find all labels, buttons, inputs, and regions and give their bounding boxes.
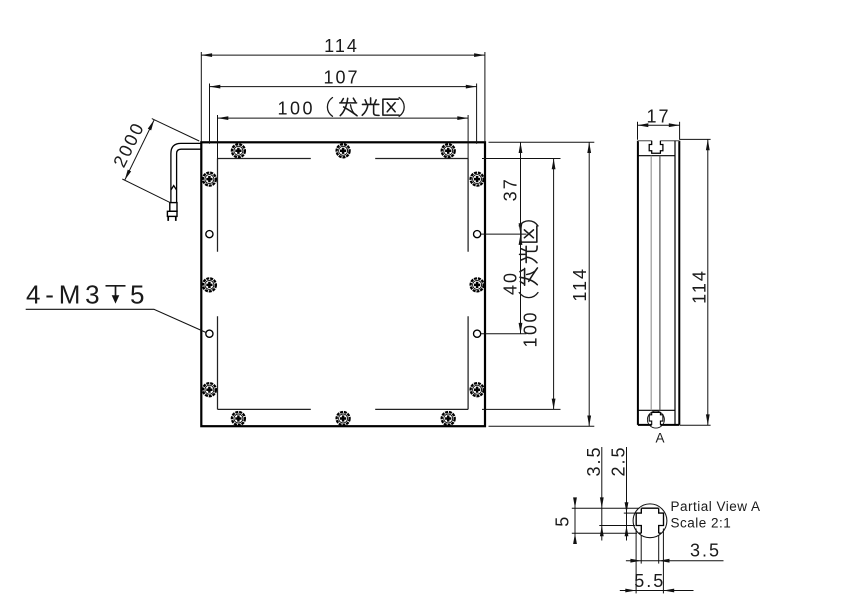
partial view slot profile right wall <box>659 508 664 533</box>
screw left-bottom <box>203 383 216 396</box>
svg-text:114: 114 <box>324 36 359 56</box>
partial view extension lines <box>572 508 664 593</box>
svg-text:114: 114 <box>570 267 590 302</box>
partial view slot profile left wall <box>636 508 641 533</box>
screw top-left <box>232 144 245 157</box>
svg-text:Partial View A: Partial View A <box>671 499 761 514</box>
svg-text:4-M3: 4-M3 <box>26 280 104 310</box>
screw right-middle <box>471 278 484 291</box>
side view inner line right <box>674 141 676 425</box>
M3 hole left lower <box>206 330 213 337</box>
shared extension line bottom (114) <box>489 425 595 427</box>
side view right edge <box>678 141 680 425</box>
screw bottom-left <box>232 412 245 425</box>
partial view boundary circle <box>633 504 667 538</box>
side view internal horizontal top <box>638 155 675 157</box>
M3 hole right lower <box>474 330 481 337</box>
svg-text:17: 17 <box>646 106 670 126</box>
svg-text:100: 100 <box>520 310 540 348</box>
side view top slot profile <box>649 141 663 154</box>
screw bottom-right <box>442 412 455 425</box>
dimension 17 side view <box>638 122 680 140</box>
partial view slot profile floor <box>641 507 658 509</box>
label leader line <box>26 309 207 332</box>
cable <box>171 143 201 202</box>
front view outer frame <box>201 142 485 426</box>
svg-text:40: 40 <box>500 271 520 295</box>
dimension 5.5 partial view bottom <box>620 590 694 592</box>
dimension 2.5 partial view <box>626 447 628 541</box>
dimension 100 (luminous area) right <box>553 159 555 410</box>
M3 hole left upper <box>206 231 213 238</box>
screw right-top <box>471 173 484 186</box>
svg-text:Scale 2:1: Scale 2:1 <box>671 515 732 530</box>
partial view bottom faces <box>639 532 662 534</box>
side view internal vertical line 2 <box>659 156 661 411</box>
detail circle A <box>647 411 664 428</box>
extension lines luminous area right <box>482 158 561 160</box>
svg-text:5.5: 5.5 <box>634 571 665 591</box>
dimension 107 top <box>210 84 477 144</box>
dimension 100 (luminous area) top <box>218 115 469 159</box>
dimension 40 right <box>520 234 522 334</box>
dimension 5 partial view <box>574 498 576 545</box>
svg-text:5: 5 <box>130 280 144 310</box>
svg-text:3.5: 3.5 <box>584 445 604 476</box>
screw left-middle <box>203 278 216 291</box>
screw left-top <box>203 173 216 186</box>
dimension 114 right <box>588 142 590 426</box>
dimension 3.5 partial view bottom <box>626 560 724 562</box>
dimension 114 side view <box>680 139 711 425</box>
side view left edge <box>637 141 639 425</box>
screw right-bottom <box>471 383 484 396</box>
front view inner bezel outline (with gaps at edge midpoints) <box>218 159 469 410</box>
screw top-right <box>442 144 455 157</box>
side view top face (slot gap) <box>638 140 679 142</box>
side view bottom slot profile <box>649 412 663 425</box>
screw bottom-center <box>337 412 350 425</box>
screw top-center <box>337 144 350 157</box>
svg-text:37: 37 <box>500 177 520 201</box>
svg-text:A: A <box>655 430 664 445</box>
side view bottom face (slot gap) <box>638 424 679 426</box>
extension line from right upper hole <box>481 233 527 235</box>
extension line from right lower hole <box>481 333 527 335</box>
svg-text:114: 114 <box>689 269 709 304</box>
side view internal vertical line 1 <box>650 156 652 411</box>
shared extension line top (37/114) <box>489 141 595 143</box>
svg-text:107: 107 <box>323 67 359 87</box>
svg-text:5: 5 <box>552 515 572 527</box>
M3 hole right upper <box>474 231 481 238</box>
side view internal horizontal bottom <box>638 409 675 411</box>
svg-text:100: 100 <box>278 99 316 119</box>
svg-text:2.5: 2.5 <box>609 445 629 476</box>
dimension 114 top <box>201 52 485 142</box>
dimension 3.5 partial view left <box>601 447 603 541</box>
cable connector <box>167 203 177 221</box>
dimension 37 right <box>520 142 522 234</box>
svg-text:3.5: 3.5 <box>690 540 721 560</box>
dimension 2000 (cable length, aligned) <box>122 119 199 203</box>
